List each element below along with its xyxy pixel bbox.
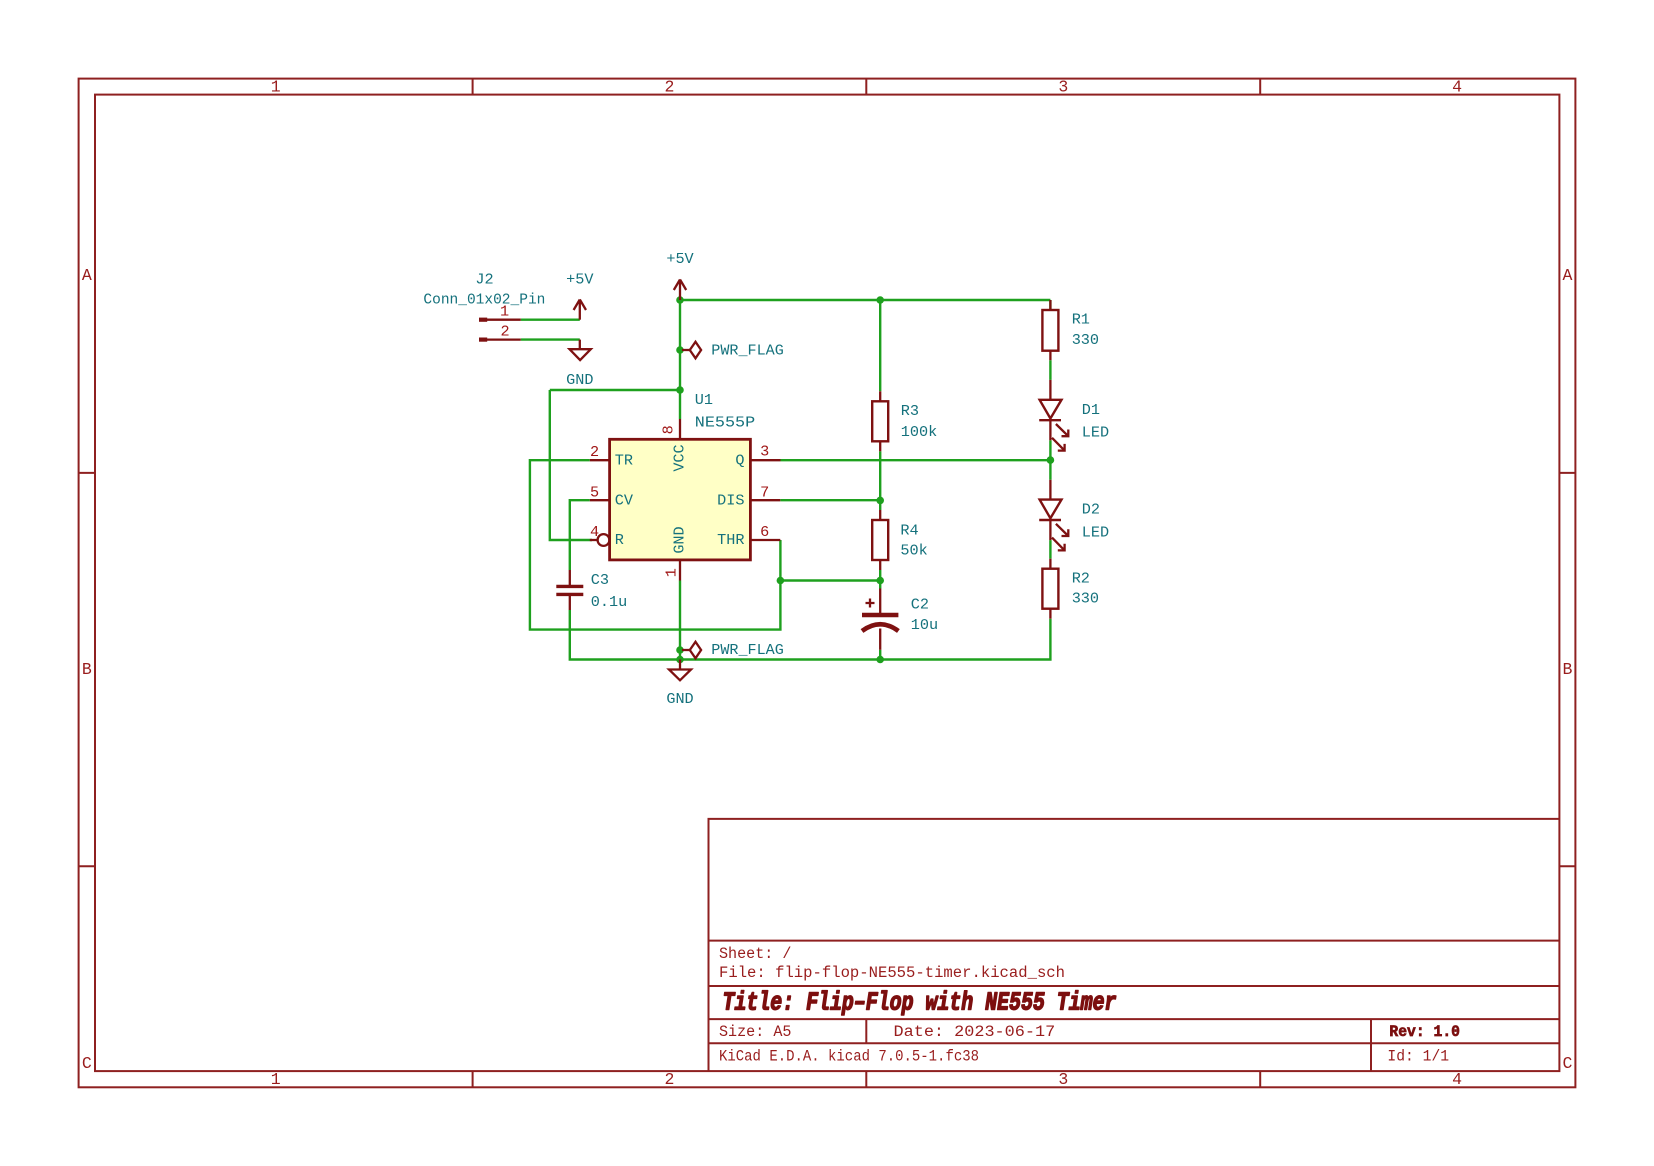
svg-text:1: 1 <box>271 77 281 96</box>
border row label A right <box>1562 266 1572 285</box>
wire R4 to C2 <box>879 570 881 589</box>
wire R3 upper <box>879 300 881 391</box>
power label GND at J2 <box>566 371 593 389</box>
title block File line <box>719 964 1065 982</box>
svg-text:PWR_FLAG: PWR_FLAG <box>711 641 784 659</box>
title block outline <box>709 819 1560 1071</box>
power flag PWR_FLAG upper label <box>711 341 784 359</box>
U1 pin 8 VCC stub <box>679 419 681 439</box>
junction DIS R3 R4 node <box>876 497 884 505</box>
title block KiCad version line <box>719 1047 979 1065</box>
capacitor C2 value 10u <box>911 616 938 634</box>
LED D2 value LED <box>1082 524 1109 542</box>
svg-text:R3: R3 <box>901 402 919 420</box>
svg-text:R1: R1 <box>1072 311 1090 329</box>
capacitor C3 reference <box>591 571 609 589</box>
U1 value NE555P <box>695 414 755 432</box>
junction GND rail x680 <box>676 656 684 664</box>
svg-text:Id: 1/1: Id: 1/1 <box>1387 1047 1449 1065</box>
U1 pin 6 THR <box>750 539 780 541</box>
svg-text:7: 7 <box>760 483 769 501</box>
border column label 4 bottom <box>1452 1070 1462 1089</box>
power flag PWR_FLAG lower <box>682 642 701 659</box>
resistor R3 body <box>872 391 888 451</box>
LED D1 <box>1039 380 1068 451</box>
wire TR net <box>530 460 781 629</box>
svg-text:Size: A5: Size: A5 <box>719 1023 792 1041</box>
junction THR vertical <box>777 577 785 585</box>
resistor R2 value 330 <box>1072 590 1099 608</box>
capacitor C2 polarized <box>862 589 898 650</box>
svg-text:Sheet: /: Sheet: / <box>719 945 792 963</box>
connector J2 pin 1 number <box>500 303 509 321</box>
wire VCC vertical to pin 8 <box>679 300 681 419</box>
svg-text:GND: GND <box>566 371 593 389</box>
U1 pin 3 Q <box>750 459 780 461</box>
svg-text:0.1u: 0.1u <box>591 593 627 611</box>
U1 pin 4 R with inversion bubble <box>590 534 610 546</box>
wire CV to C3 <box>570 500 590 570</box>
svg-text:GND: GND <box>671 526 689 553</box>
wire R1 to top rail <box>1049 300 1051 310</box>
svg-text:Title: Flip–Flop with NE555 Ti: Title: Flip–Flop with NE555 Timer <box>723 987 1117 1017</box>
border column label 1 top <box>271 77 281 96</box>
connector J2 value Conn_01x02_Pin <box>423 290 545 308</box>
U1 pin 4 name R <box>615 531 624 549</box>
LED D1 value LED <box>1082 424 1109 442</box>
power symbol GND bottom <box>669 660 691 681</box>
svg-text:3: 3 <box>760 443 769 461</box>
svg-text:2: 2 <box>665 1070 675 1089</box>
svg-text:KiCad E.D.A. kicad 7.0.5-1.fc: KiCad E.D.A. kicad 7.0.5-1.fc38 <box>719 1047 979 1065</box>
power label GND bottom <box>666 690 693 708</box>
svg-text:D2: D2 <box>1082 501 1100 519</box>
svg-text:330: 330 <box>1072 331 1099 349</box>
resistor R2 body <box>1042 559 1058 619</box>
U1 pin 3 name Q <box>735 451 744 469</box>
junction C2 bottom rail <box>876 656 884 664</box>
svg-text:U1: U1 <box>695 391 713 409</box>
resistor R4 value 50k <box>900 542 927 560</box>
svg-text:VCC: VCC <box>671 444 689 471</box>
U1 pin 5 CV <box>590 499 610 501</box>
resistor R4 body <box>872 510 888 570</box>
resistor R4 reference <box>900 522 918 540</box>
wire ground bottom rail <box>570 610 1051 660</box>
U1 pin 5 name CV <box>615 491 634 509</box>
svg-text:330: 330 <box>1072 590 1099 608</box>
wire DIS to R3/R4 <box>780 499 880 501</box>
LED D1 reference <box>1082 401 1100 419</box>
svg-text:A: A <box>82 266 92 285</box>
connector J2 pin 1 tab <box>479 318 487 322</box>
border row label C left <box>82 1054 92 1073</box>
svg-text:File: flip-flop-NE555-timer.ki: File: flip-flop-NE555-timer.kicad_sch <box>719 964 1065 982</box>
connector J2 pin 2 tab <box>479 338 487 342</box>
wire C2 to ground rail <box>879 650 881 660</box>
U1 pin 7 DIS <box>750 499 780 501</box>
U1 pin 2 name TR <box>615 451 633 469</box>
resistor R2 reference <box>1072 570 1090 588</box>
capacitor C3 <box>556 570 583 610</box>
svg-text:A: A <box>1562 266 1572 285</box>
junction R4 C2 node <box>876 577 884 585</box>
U1 pin 8 name VCC <box>671 444 689 471</box>
svg-text:Q: Q <box>735 451 744 469</box>
svg-text:B: B <box>1562 660 1572 679</box>
power flag PWR_FLAG upper <box>682 342 701 359</box>
wire GND label to VCC column <box>550 389 680 391</box>
capacitor C2 reference <box>911 596 929 614</box>
border column label 1 bottom <box>271 1070 281 1089</box>
svg-text:NE555P: NE555P <box>695 414 755 432</box>
resistor R3 value 100k <box>901 423 937 441</box>
U1 pin 5 number <box>590 483 599 501</box>
svg-text:1: 1 <box>271 1070 281 1089</box>
svg-text:C3: C3 <box>591 571 609 589</box>
svg-text:C: C <box>1562 1054 1572 1073</box>
svg-text:C2: C2 <box>911 596 929 614</box>
power label +5V at J2 <box>566 271 594 289</box>
U1 pin 1 name GND <box>671 526 689 553</box>
U1 pin 1 number <box>663 568 681 577</box>
title block Date cell <box>894 1023 1056 1041</box>
title block Title line <box>723 987 1117 1017</box>
svg-text:Date: 2023-06-17: Date: 2023-06-17 <box>894 1023 1056 1041</box>
wire R3 lower <box>879 451 881 500</box>
capacitor C3 value 0.1u <box>591 593 627 611</box>
svg-text:3: 3 <box>1058 77 1068 96</box>
svg-text:+5V: +5V <box>566 271 594 289</box>
wire Q output <box>781 459 1051 461</box>
wire GND column pin1 <box>679 581 681 660</box>
border row label A left <box>82 266 92 285</box>
svg-text:J2: J2 <box>475 271 493 289</box>
LED D2 <box>1039 480 1068 551</box>
svg-text:5: 5 <box>590 483 599 501</box>
U1 pin 2 TR <box>590 459 610 461</box>
wire J2 pin2 to GND <box>521 338 580 340</box>
border division ticks <box>79 79 1576 1088</box>
connector J2 pin 1 <box>487 319 521 321</box>
sheet inner border <box>95 95 1559 1072</box>
wire D1 to Q node <box>1049 440 1051 460</box>
power symbol GND at J2 <box>570 340 591 361</box>
LED D2 reference <box>1082 501 1100 519</box>
border column label 3 bottom <box>1058 1070 1068 1089</box>
wire Q node to D2 <box>1049 460 1051 480</box>
border column label 2 top <box>665 77 675 96</box>
wire J2 pin1 to +5V <box>521 319 580 321</box>
svg-text:R2: R2 <box>1072 570 1090 588</box>
U1 pin 6 number <box>760 523 769 541</box>
U1 pin 4 number <box>590 523 599 541</box>
svg-text:4: 4 <box>1452 77 1462 96</box>
svg-text:R4: R4 <box>900 522 918 540</box>
power symbol +5V at J2 <box>574 300 586 320</box>
wire R4 upper <box>879 500 881 510</box>
U1 pin 3 number <box>760 443 769 461</box>
power label +5V at VCC column <box>666 250 694 268</box>
resistor R1 value 330 <box>1072 331 1099 349</box>
U1 pin 7 number <box>760 483 769 501</box>
svg-text:2: 2 <box>665 77 675 96</box>
svg-text:PWR_FLAG: PWR_FLAG <box>711 341 784 359</box>
svg-text:+5V: +5V <box>666 250 694 268</box>
junction PWR_FLAG upper <box>676 346 684 354</box>
svg-text:50k: 50k <box>900 542 927 560</box>
resistor R1 body <box>1042 300 1058 360</box>
svg-text:6: 6 <box>760 523 769 541</box>
svg-text:B: B <box>82 660 92 679</box>
svg-text:Conn_01x02_Pin: Conn_01x02_Pin <box>423 290 545 308</box>
junction at R3 top <box>876 296 884 304</box>
title block Rev cell <box>1389 1023 1460 1041</box>
svg-text:CV: CV <box>615 491 634 509</box>
power flag PWR_FLAG lower label <box>711 641 784 659</box>
border row label C right <box>1562 1054 1572 1073</box>
U1 reference <box>695 391 713 409</box>
border column label 2 bottom <box>665 1070 675 1089</box>
title block Sheet line <box>719 945 792 963</box>
svg-text:Rev: 1.0: Rev: 1.0 <box>1389 1023 1460 1041</box>
U1 pin 7 name DIS <box>717 491 744 509</box>
wire +5V top rail <box>680 299 1050 301</box>
wire GND net down to pin 4 <box>550 390 592 540</box>
resistor R3 reference <box>901 402 919 420</box>
svg-text:DIS: DIS <box>717 491 744 509</box>
svg-text:8: 8 <box>659 425 677 434</box>
wire D2 to R2 <box>1049 540 1051 559</box>
U1 pin 2 number <box>590 443 599 461</box>
junction GND wire at VCC column <box>676 386 684 394</box>
U1 pin 6 name THR <box>717 531 744 549</box>
svg-text:LED: LED <box>1082 424 1109 442</box>
svg-text:GND: GND <box>666 690 693 708</box>
connector J2 reference <box>475 271 493 289</box>
U1 pin 1 GND stub <box>679 560 681 581</box>
connector J2 pin 2 <box>487 338 521 340</box>
svg-text:THR: THR <box>717 531 744 549</box>
svg-text:1: 1 <box>663 568 681 577</box>
svg-text:C: C <box>82 1054 92 1073</box>
border column label 4 top <box>1452 77 1462 96</box>
title block Size cell <box>719 1023 792 1041</box>
svg-text:TR: TR <box>615 451 633 469</box>
svg-text:100k: 100k <box>901 423 937 441</box>
junction at +5V rail x680 <box>676 296 684 304</box>
border row label B left <box>82 660 92 679</box>
power symbol +5V at VCC column <box>674 280 686 301</box>
svg-text:2: 2 <box>590 443 599 461</box>
connector J2 pin 2 number <box>500 323 509 341</box>
border column label 3 top <box>1058 77 1068 96</box>
sheet outer border <box>79 79 1576 1088</box>
wire THR junction to C2 <box>780 579 880 581</box>
U1 pin 8 number <box>659 425 677 434</box>
junction PWR_FLAG lower <box>676 646 684 654</box>
svg-text:LED: LED <box>1082 524 1109 542</box>
svg-text:D1: D1 <box>1082 401 1100 419</box>
svg-text:R: R <box>615 531 624 549</box>
border row label B right <box>1562 660 1572 679</box>
svg-text:10u: 10u <box>911 616 938 634</box>
wire R1 to D1 <box>1049 360 1051 380</box>
op-amp U1 NE555P body <box>610 439 751 560</box>
svg-text:2: 2 <box>500 323 509 341</box>
resistor R1 reference <box>1072 311 1090 329</box>
title block Id cell <box>1387 1047 1449 1065</box>
svg-text:4: 4 <box>1452 1070 1462 1089</box>
svg-text:3: 3 <box>1058 1070 1068 1089</box>
junction Q D1 D2 node <box>1047 456 1055 464</box>
svg-text:4: 4 <box>590 523 599 541</box>
